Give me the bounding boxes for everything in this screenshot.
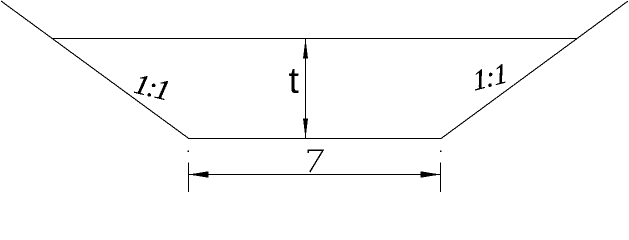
arrowhead left <box>189 171 209 177</box>
arrowhead right <box>421 171 441 177</box>
arrowhead down <box>303 119 308 139</box>
bottom channel line <box>189 138 442 140</box>
arrowhead up <box>303 39 308 59</box>
extension line left (dot + segment) <box>188 151 190 153</box>
top surface line <box>52 38 578 40</box>
left slope line <box>1 1 189 139</box>
svg-text:1:1: 1:1 <box>471 58 508 97</box>
dimension line t (vertical) <box>305 39 307 139</box>
dimension line 7 (horizontal) <box>189 174 441 176</box>
extension line right (dot + segment) <box>440 151 442 153</box>
right slope line <box>441 1 628 138</box>
label 7 <box>308 150 323 172</box>
svg-text:t: t <box>289 60 300 101</box>
